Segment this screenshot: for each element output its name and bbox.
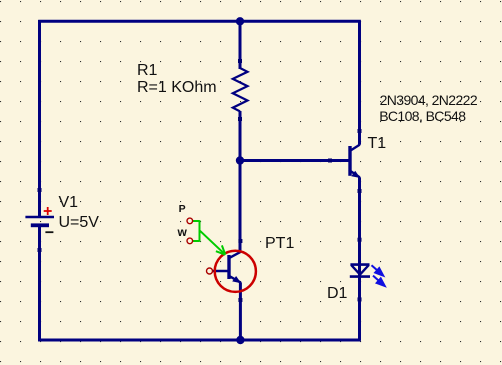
PT1 red circle bbox=[215, 251, 256, 292]
wire middle lower (PT1 emitter to bottom) bbox=[239, 282, 242, 340]
battery V1 bbox=[25, 217, 54, 227]
wire left upper (V1 + lead) bbox=[38, 20, 41, 217]
T1 emitter arrowhead bbox=[351, 171, 360, 178]
pin marker D1 top bbox=[358, 238, 362, 242]
value U=5V bbox=[59, 215, 99, 231]
wire left lower (V1 - lead) bbox=[38, 224, 41, 341]
wire middle (R1 bottom to PT1 collector) bbox=[239, 111, 242, 252]
pin marker D1 bottom bbox=[358, 297, 362, 301]
wire base T1 (node to base) bbox=[240, 159, 349, 162]
annotation BC108, BC548 bbox=[379, 109, 465, 123]
port label P bbox=[179, 204, 186, 215]
wire middle upper (R1 top lead) bbox=[239, 21, 242, 69]
port label w bbox=[178, 226, 187, 238]
pin marker R1 top bbox=[238, 59, 242, 63]
pin marker T1 emitter bbox=[358, 189, 362, 193]
pin marker T1 collector bbox=[358, 129, 362, 133]
PT1 base open terminal bbox=[207, 268, 213, 274]
wire right lower (T1 emitter to D1 to bottom) bbox=[358, 177, 361, 340]
LED D1 bbox=[350, 265, 370, 277]
PT1 emitter arrowhead bbox=[232, 276, 241, 283]
pin marker R1 bottom bbox=[238, 117, 242, 121]
pin marker PT1 collector bbox=[238, 239, 242, 243]
wire bottom (ground net) bbox=[38, 339, 361, 342]
label PT1 bbox=[265, 236, 294, 252]
pin marker V1 top bbox=[38, 188, 42, 192]
battery plus sign bbox=[44, 207, 52, 215]
light source green arrow bbox=[193, 220, 226, 255]
LED light arrow 2 bbox=[373, 276, 385, 286]
annotation 2N3904, 2N2222 bbox=[380, 93, 477, 107]
label T1 bbox=[368, 136, 387, 152]
light port terminal w bbox=[187, 238, 193, 244]
junction node bottom (PT1 emitter/ground) bbox=[236, 336, 244, 344]
label R1 bbox=[137, 63, 157, 79]
light port terminal P bbox=[187, 218, 193, 224]
pin marker V1 bottom bbox=[38, 248, 42, 252]
junction node base (R1/T1 base) bbox=[236, 156, 244, 164]
junction node top (R1/top wire) bbox=[236, 17, 244, 25]
label D1 bbox=[327, 286, 347, 302]
LED light arrow 1 bbox=[372, 265, 384, 275]
resistor R1 bbox=[233, 68, 248, 111]
transistor T1 bbox=[349, 145, 360, 178]
wire right upper (T1 collector to top) bbox=[358, 21, 361, 145]
wire top (node between V1+, R1, T1 collector) bbox=[38, 20, 361, 23]
value R=1 KOhm bbox=[137, 80, 217, 96]
pin marker PT1 emitter bbox=[238, 298, 242, 302]
phototransistor PT1 body bbox=[213, 252, 241, 283]
pin marker T1 base bbox=[328, 159, 332, 163]
label V1 bbox=[59, 195, 79, 211]
battery minus sign bbox=[45, 231, 53, 233]
